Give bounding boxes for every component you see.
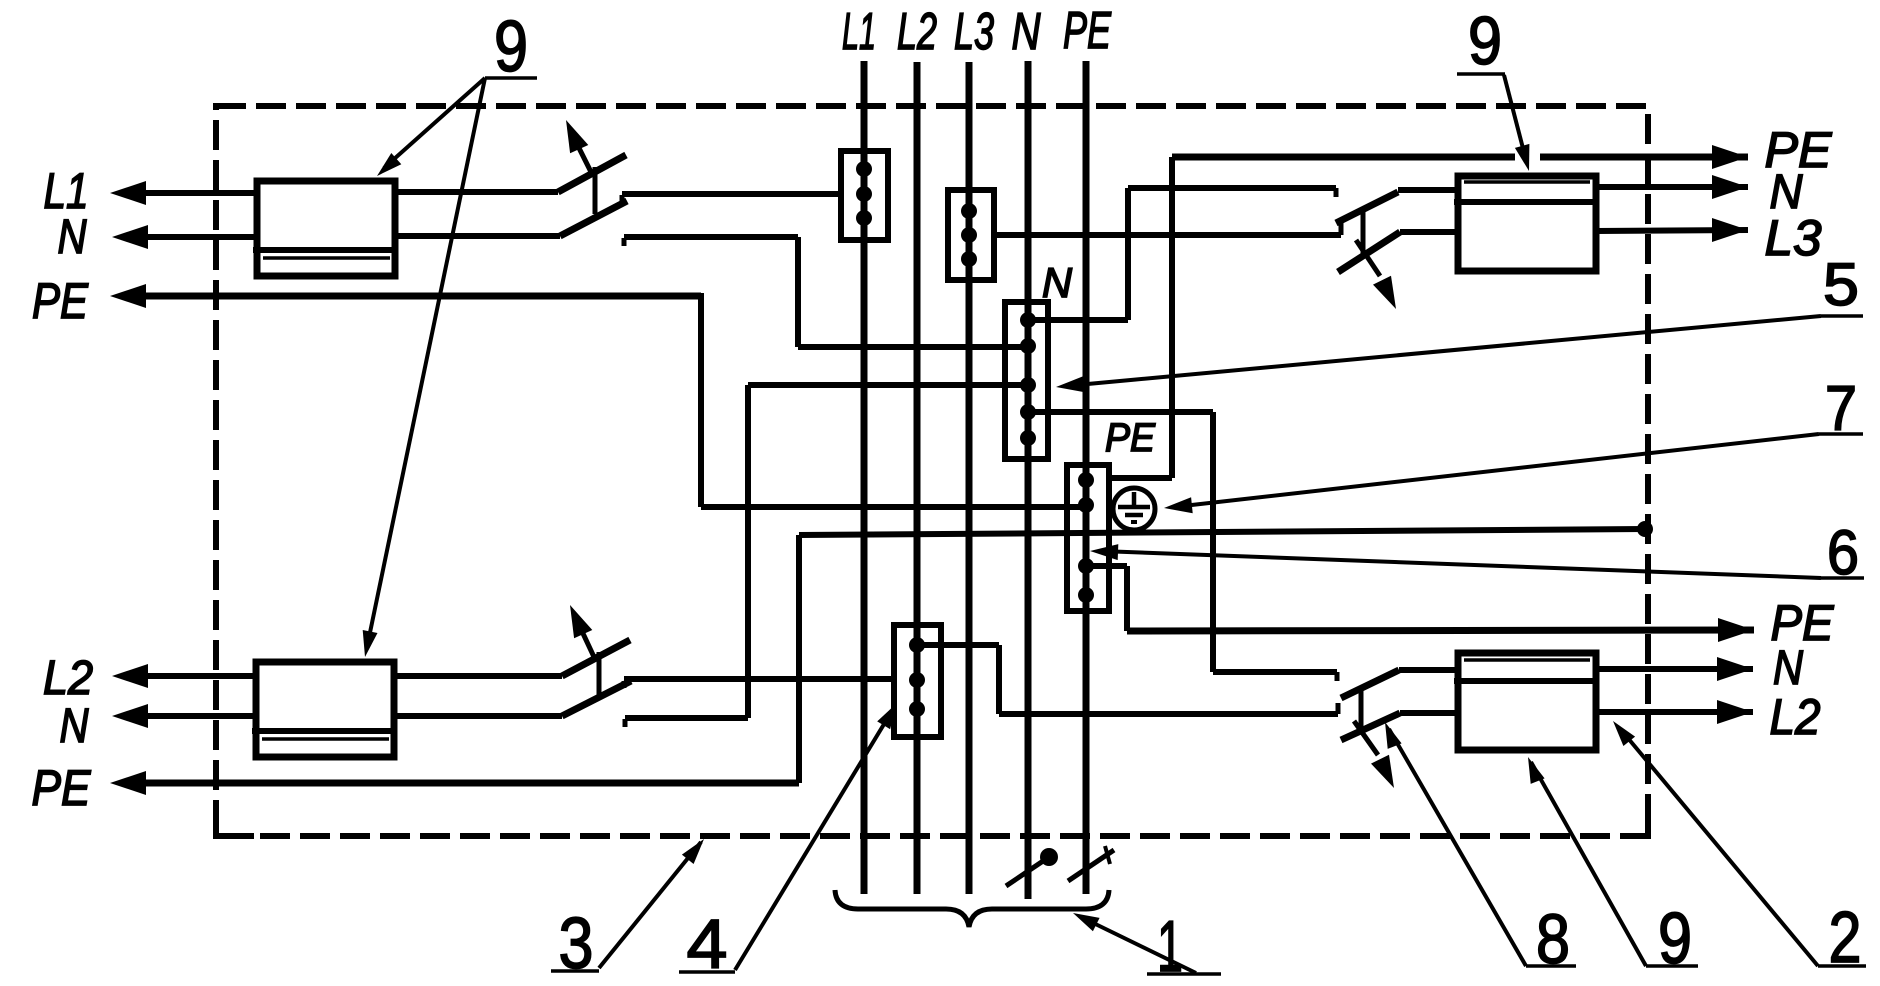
switch SA1 link bar [593,167,598,214]
pointer 7 to ground [1174,434,1819,507]
terminal block PE [1067,465,1109,611]
switch SA4 fixed contact L2 stub [1336,703,1341,714]
ground symbol bar2 [1125,513,1143,518]
wire N block dot4 to right [1028,409,1213,415]
terminal block L1 [841,151,888,240]
wire N riser bottom-left [745,385,751,718]
wire PE output top-right part1 [1172,154,1515,161]
wire PE to PE-block [701,504,1086,510]
switch SA3 blade L3 [1338,232,1400,272]
node N block dot3 [1020,377,1036,393]
wire PE feed from top-right [1109,475,1172,481]
wire N riser top-left [795,237,801,347]
terminal block L2 item4 [894,625,941,737]
wire L1 supply vertical [861,61,868,894]
wire PE top-left riser [698,293,704,507]
node L3 block dot2 [961,227,977,243]
switch SA1 fixed contact N [622,238,627,246]
pointer 1 to brace [1081,917,1196,973]
wire L2 output left [130,673,256,679]
ground symbol stem [1132,492,1137,507]
wire N to right switch [1128,185,1336,191]
node L1 block dot1 [856,161,872,177]
wire L1 socket to switch [395,189,558,195]
svg-text:PE: PE [1105,416,1156,460]
svg-text:PE: PE [1063,2,1112,60]
svg-text:9: 9 [1468,3,1502,79]
wire N to bottom-right switch [1213,669,1337,675]
wire N socket to switch bottom [394,713,562,719]
wire PE bond to enclosure [799,529,1645,535]
wire L3 output right [1596,230,1748,231]
enclosure border corner bottom-left [213,814,219,836]
switch SA2 fixed contact L2 [622,681,627,688]
svg-text:N: N [1773,642,1803,695]
switch SA4 blade L2 [1341,713,1400,740]
wire L2 block to right [917,642,999,648]
switch SA4 blade N [1341,670,1399,698]
wire N output left [130,234,257,240]
switch SA2 blade N [562,681,631,716]
node N block dot1 [1020,312,1036,328]
wire L2 switch to socket [1400,710,1458,716]
node L1 block dot2 [856,186,872,202]
svg-text:L3: L3 [954,3,994,61]
wire L2 output right bottom [1596,709,1753,715]
wire PE bottom-left riser [796,535,802,783]
switch SA4 fixed contact N stub [1335,672,1340,681]
svg-text:L2: L2 [1770,689,1821,745]
node L2 block dot1 [909,637,925,653]
wire L2 supply vertical [914,62,921,894]
wire PE drop bottom-right [1124,566,1130,631]
switch SA2 link bar [597,652,602,699]
wire L2 socket to switch [394,673,562,679]
switch SA1 actuator arrow [576,142,591,172]
svg-text:L1: L1 [842,3,876,61]
switch SA4 link bar [1359,691,1364,730]
node PE block dot1 [1078,472,1094,488]
svg-text:N: N [60,700,89,753]
disconnect slash PE tick [1105,846,1110,864]
socket XS1 top-left [257,181,395,276]
node L1 block dot3 [856,210,872,226]
wire PE output left [128,293,701,300]
socket XS2 bottom-left [256,662,394,757]
terminal block L3 [948,190,994,280]
pointer 9 to socket XS4 [1531,762,1646,966]
wire N to N-block [798,344,1027,350]
wire PE block to bottom-right [1086,563,1127,569]
switch SA2 blade L2 [562,640,630,676]
node L2 block dot2 [909,672,925,688]
node PE block dot3 [1078,558,1094,574]
node slash N dot [1040,848,1058,866]
switch SA1 blade N [560,201,627,236]
wire N socket to switch [395,233,560,239]
socket XS4 bottom-right [1458,653,1596,750]
wire L2 drop [996,645,1002,714]
svg-text:N: N [1042,259,1073,306]
pointer 9 to socket XS2 [367,78,485,647]
socket XS3 top-right [1458,176,1596,271]
wire N switch to socket [1398,187,1458,193]
switch SA2 fixed contact N [623,719,628,727]
node N block dot4 [1020,404,1036,420]
switch SA4 actuator arrow [1354,721,1378,755]
switch SA3 actuator arrow [1356,240,1380,276]
svg-text:5: 5 [1823,251,1859,318]
pointer 5 to N block [1066,316,1821,386]
wire N riser right [1125,188,1131,320]
switch SA1 fixed contact L1 [620,195,625,204]
ground symbol circle [1113,488,1155,530]
wire L3 supply vertical [966,62,973,894]
terminal block N item5 [1005,302,1048,459]
wire PE riser top-right [1169,157,1175,478]
pointer 8 to switch SA4 [1389,729,1526,966]
switch SA2 actuator arrow [580,627,594,657]
node PE bond at enclosure [1637,521,1653,537]
node N block dot5 [1020,430,1036,446]
svg-text:PE: PE [32,760,92,816]
wire N to N-block dot3 [748,382,1028,388]
wire N supply vertical [1025,61,1032,899]
node L3 block dot3 [961,251,977,267]
node L2 block dot3 [909,701,925,717]
ground symbol bar3 [1131,520,1137,524]
svg-text:L2: L2 [897,3,937,61]
brace cable group [835,890,1109,927]
svg-text:L3: L3 [1765,210,1822,266]
switch SA3 fixed contact L3 stub [1339,223,1344,235]
wire N output left bottom [130,713,256,719]
disconnect slash N [1006,855,1052,886]
node PE block dot2 [1078,497,1094,513]
wire L1 output left [128,190,257,196]
wire L2 to bottom-right switch [999,711,1338,717]
svg-text:9: 9 [494,7,528,87]
svg-text:N: N [1012,3,1041,61]
pointer 2 to socket XS4 [1622,731,1818,966]
node L3 block dot1 [961,203,977,219]
node N block dot2 [1020,338,1036,354]
node PE block dot4 [1078,587,1094,603]
enclosure dashed border [216,106,1648,836]
switch SA3 fixed contact N stub [1334,188,1339,197]
svg-text:PE: PE [32,273,89,329]
svg-text:L2: L2 [43,652,93,705]
pointer 9 to socket XS1 [384,78,485,168]
pointer 9 to socket XS3 [1504,75,1526,160]
ground symbol bar1 [1118,505,1150,510]
pointer 3 to enclosure [599,842,701,968]
wire PE output bottom-right [1127,630,1754,631]
switch SA3 blade N [1336,192,1398,223]
wire PE output top-right part2 [1540,154,1748,161]
switch SA1 blade L1 [558,155,626,192]
pointer 6 to PE block [1100,551,1821,578]
disconnect slash PE [1068,850,1114,881]
pointer 4 to L2 block [735,706,895,970]
wire N output right [1596,184,1748,190]
wire L3 to right switch [994,232,1341,238]
wire PE output left bottom [128,780,799,787]
wire N drop right [1210,412,1216,672]
enclosure border corner bottom-right [1645,816,1651,836]
wire N switch to socket bottom [1399,667,1458,673]
wire PE supply vertical [1083,61,1090,894]
wire N output right bottom [1596,666,1753,672]
wire L3 switch to socket [1400,229,1458,235]
svg-text:N: N [58,211,87,264]
wire N block to top-right [1028,317,1128,323]
switch SA3 link bar [1361,211,1366,257]
